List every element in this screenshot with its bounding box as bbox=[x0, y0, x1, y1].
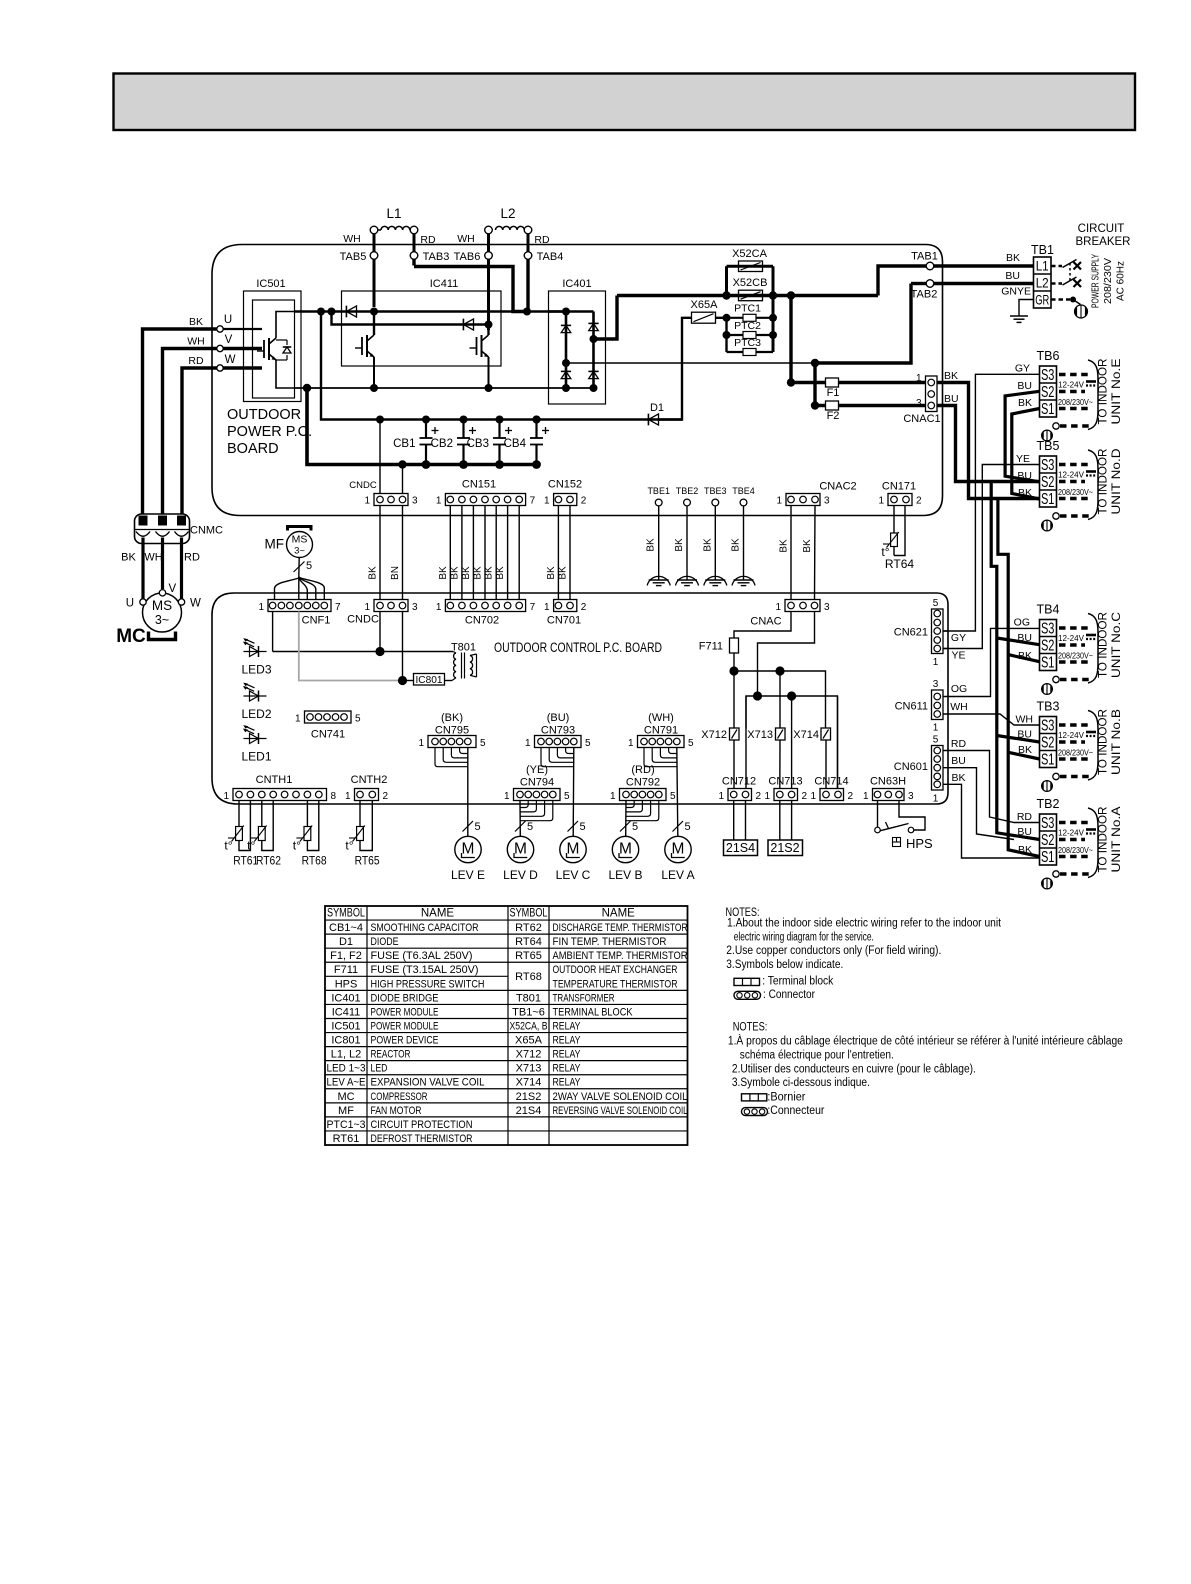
svg-text:BK: BK bbox=[473, 566, 484, 580]
svg-text:1: 1 bbox=[718, 791, 724, 802]
svg-text:BN: BN bbox=[390, 566, 401, 580]
svg-text:3~: 3~ bbox=[294, 546, 305, 557]
wire label GY (CN621) bbox=[951, 632, 966, 644]
svg-text:5: 5 bbox=[933, 735, 939, 746]
wire label BU (TB) bbox=[1017, 470, 1032, 482]
svg-text:BK: BK bbox=[702, 538, 713, 552]
wire label RD (L1) bbox=[420, 234, 436, 246]
wires CN792 bundle bbox=[626, 801, 659, 837]
wire TBE1 to ground bbox=[658, 506, 660, 580]
wire CN63H pin3 loop bbox=[899, 801, 925, 831]
terminal block TB2 bbox=[1037, 797, 1123, 889]
svg-text:CN621: CN621 bbox=[894, 627, 928, 639]
svg-text:NOTES:: NOTES: bbox=[733, 1022, 768, 1034]
svg-text:OUTDOOR: OUTDOOR bbox=[227, 407, 301, 423]
wire AC to TAB1 bbox=[878, 266, 927, 296]
capacitor CB4 bbox=[504, 416, 549, 469]
svg-text:PTC1~3: PTC1~3 bbox=[327, 1119, 366, 1131]
svg-text:WH: WH bbox=[1016, 714, 1034, 726]
svg-text:CIRCUIT: CIRCUIT bbox=[1078, 223, 1125, 235]
wire BU (TB2 S2) bbox=[943, 768, 1014, 840]
svg-text:BK: BK bbox=[449, 566, 460, 580]
svg-text:PTC2: PTC2 bbox=[734, 320, 761, 332]
wire CNDC pin3 riser bbox=[402, 465, 404, 494]
svg-text:5: 5 bbox=[933, 598, 939, 609]
svg-text:RT65: RT65 bbox=[355, 856, 380, 868]
svg-text:V: V bbox=[225, 334, 233, 346]
chassis ground TBE2 bbox=[676, 576, 699, 585]
svg-text:RELAY: RELAY bbox=[553, 1035, 582, 1047]
wire label BU (TB) bbox=[1017, 729, 1032, 741]
svg-text:t°: t° bbox=[293, 839, 301, 853]
svg-text:LEV E: LEV E bbox=[451, 868, 485, 882]
wire CN713 pin2 down bbox=[791, 801, 793, 841]
svg-text:BK: BK bbox=[802, 539, 813, 553]
svg-text:1: 1 bbox=[258, 602, 264, 613]
svg-text:X712: X712 bbox=[516, 1049, 542, 1061]
fan motor MF bbox=[265, 527, 313, 558]
svg-text:TAB4: TAB4 bbox=[537, 251, 564, 263]
svg-text:WH: WH bbox=[144, 552, 162, 564]
svg-text:5: 5 bbox=[474, 821, 480, 833]
svg-text:S2: S2 bbox=[1041, 474, 1055, 491]
svg-text:FIN TEMP. THERMISTOR: FIN TEMP. THERMISTOR bbox=[553, 936, 667, 948]
svg-text:LED 1~3: LED 1~3 bbox=[327, 1063, 366, 1075]
svg-text:L2: L2 bbox=[500, 206, 515, 221]
junction P2 TAB6 bbox=[485, 321, 493, 329]
svg-text:POWER MODULE: POWER MODULE bbox=[371, 1020, 439, 1032]
expansion valve motor LEV D bbox=[503, 836, 538, 882]
svg-text:2: 2 bbox=[756, 791, 762, 802]
junction net2 b bbox=[787, 691, 796, 700]
wire CNAC pin1-F711 bbox=[734, 612, 791, 639]
svg-text:TB1~6: TB1~6 bbox=[512, 1006, 545, 1018]
connector CN795 bbox=[418, 712, 486, 749]
wire label BK (CNAC1) bbox=[944, 370, 958, 382]
wire RD phase bbox=[182, 368, 217, 514]
svg-text:TEMPERATURE THERMISTOR: TEMPERATURE THERMISTOR bbox=[553, 978, 678, 990]
symbol table right column bbox=[510, 922, 688, 1117]
wire YE (TB5 S3) bbox=[943, 465, 1040, 649]
svg-text::Connecteur: :Connecteur bbox=[767, 1105, 824, 1117]
svg-text:IC401: IC401 bbox=[562, 278, 591, 290]
svg-text:12-24V: 12-24V bbox=[1058, 470, 1084, 480]
junction bridge BR bbox=[590, 384, 598, 392]
RT64 loop bbox=[894, 506, 905, 556]
IC411 IGBT right bbox=[470, 325, 490, 389]
svg-text:WH: WH bbox=[950, 701, 968, 713]
svg-text:AMBIENT TEMP. THERMISTOR: AMBIENT TEMP. THERMISTOR bbox=[553, 950, 688, 962]
svg-text:GY: GY bbox=[1015, 363, 1030, 375]
relay X52CB bbox=[733, 277, 768, 301]
wire CNF1 pin4 net (gray) bbox=[299, 612, 399, 681]
svg-text:2: 2 bbox=[916, 496, 922, 507]
slash 5 (LEV A) bbox=[673, 821, 691, 833]
svg-text:F2: F2 bbox=[827, 410, 840, 422]
expansion valve motor LEV B bbox=[608, 836, 642, 882]
IC401 diode LL bbox=[561, 371, 571, 378]
svg-text:TO INDOOR: TO INDOOR bbox=[1098, 612, 1110, 678]
svg-text:BK: BK bbox=[495, 566, 506, 580]
svg-text:RT64: RT64 bbox=[885, 557, 914, 571]
junction F1 node bbox=[787, 378, 795, 386]
slash 5 (MF) bbox=[294, 560, 313, 572]
svg-text:CNAC1: CNAC1 bbox=[903, 413, 940, 425]
svg-text:M: M bbox=[514, 841, 527, 858]
junction AC-F1 riser bbox=[787, 291, 795, 299]
wire label BK (TB1) bbox=[1006, 252, 1020, 264]
svg-text:CNAC2: CNAC2 bbox=[819, 481, 856, 493]
wire net2-CN712 bbox=[745, 696, 747, 789]
wire TAB3 to bridge rail bbox=[414, 267, 527, 312]
svg-text:X713: X713 bbox=[516, 1063, 542, 1075]
svg-text:S2: S2 bbox=[1041, 384, 1055, 401]
svg-text:OUTDOOR HEAT EXCHANGER: OUTDOOR HEAT EXCHANGER bbox=[553, 964, 678, 976]
ground (GR) bbox=[1010, 316, 1028, 322]
wire label BK (CN601) bbox=[951, 772, 965, 784]
svg-text:RELAY: RELAY bbox=[553, 1077, 582, 1089]
svg-text:TAB2: TAB2 bbox=[911, 289, 938, 301]
svg-text:V: V bbox=[169, 583, 177, 595]
svg-text:CNDC: CNDC bbox=[349, 480, 377, 491]
svg-text:FUSE (T6.3AL 250V): FUSE (T6.3AL 250V) bbox=[371, 950, 473, 962]
svg-text:TBE1: TBE1 bbox=[647, 486, 670, 496]
svg-text:S3: S3 bbox=[1041, 457, 1055, 474]
solenoid coil 21S2 bbox=[768, 840, 803, 856]
junction PTC1 left bbox=[723, 314, 731, 322]
svg-text:X52CA, B: X52CA, B bbox=[510, 1020, 548, 1032]
svg-text:LED2: LED2 bbox=[241, 707, 271, 721]
wires CN793 bundle bbox=[541, 748, 574, 837]
svg-text:BK: BK bbox=[944, 370, 958, 382]
wire TBE2 to ground bbox=[686, 506, 688, 580]
wire label YE (CN621) bbox=[951, 650, 965, 662]
svg-text:TBE3: TBE3 bbox=[704, 486, 727, 496]
IC411 boost diode 1 bbox=[346, 306, 356, 318]
earth (breaker) bbox=[1075, 305, 1088, 318]
circuit protection PTC1 bbox=[727, 303, 774, 322]
svg-text:1: 1 bbox=[775, 602, 781, 613]
wire X712-CN712 bbox=[733, 740, 735, 789]
svg-text:LEV C: LEV C bbox=[556, 868, 591, 882]
svg-text:TB5: TB5 bbox=[1037, 439, 1060, 453]
terminal TAB6 bbox=[454, 251, 493, 263]
svg-text:S2: S2 bbox=[1041, 832, 1055, 849]
connector CN791 bbox=[628, 712, 694, 749]
svg-text:1: 1 bbox=[863, 791, 869, 802]
wire TAB2 stub bbox=[911, 282, 927, 285]
svg-text:WH: WH bbox=[343, 233, 361, 245]
connector CN794 bbox=[504, 764, 570, 802]
svg-text:TO INDOOR: TO INDOOR bbox=[1098, 807, 1110, 873]
svg-text:RT62: RT62 bbox=[256, 856, 281, 868]
power supply label bbox=[1090, 254, 1127, 308]
svg-text:CN171: CN171 bbox=[882, 481, 916, 493]
X52CA row bbox=[727, 265, 774, 268]
compressor motor MC bbox=[126, 583, 201, 632]
CB bottom bus bbox=[307, 388, 537, 465]
svg-text:LEV B: LEV B bbox=[608, 868, 642, 882]
N rail bbox=[295, 387, 594, 389]
notes (english) bbox=[726, 907, 1002, 971]
terminal TBE3 bbox=[704, 486, 727, 506]
svg-text:RELAY: RELAY bbox=[553, 1049, 582, 1061]
svg-text:1: 1 bbox=[418, 738, 424, 749]
title header bar bbox=[114, 74, 1136, 131]
svg-text:U: U bbox=[224, 314, 232, 326]
wire CNF1 pin1 net bbox=[273, 612, 453, 652]
terminal TAB5 bbox=[340, 251, 378, 263]
svg-text:S3: S3 bbox=[1041, 815, 1055, 832]
wire label WH (L2) bbox=[457, 233, 475, 245]
wire riser to F1 bbox=[789, 296, 792, 383]
svg-text:7: 7 bbox=[335, 602, 341, 613]
svg-text:S1: S1 bbox=[1041, 752, 1055, 769]
junction P1 a bbox=[317, 308, 325, 316]
wire bridge out to X52 line bbox=[594, 296, 618, 340]
svg-text:IC411: IC411 bbox=[430, 278, 459, 290]
wire BK (TB2 S1) bbox=[943, 784, 1040, 858]
svg-text:3: 3 bbox=[824, 602, 830, 613]
svg-text:8: 8 bbox=[331, 791, 337, 802]
svg-text:RD: RD bbox=[951, 738, 967, 750]
svg-text:BU: BU bbox=[944, 393, 959, 405]
wire CN712 pin1 down bbox=[733, 801, 735, 841]
svg-text:NAME: NAME bbox=[602, 908, 636, 920]
svg-text:1: 1 bbox=[295, 714, 301, 725]
net2 line bbox=[746, 696, 838, 789]
chassis ground TBE4 bbox=[732, 576, 755, 585]
relay X52CA bbox=[732, 248, 768, 272]
chassis ground TBE3 bbox=[704, 576, 727, 585]
IC411 rail P2 bbox=[332, 312, 489, 325]
breaker pole L1 bbox=[1051, 260, 1081, 270]
svg-text:RD: RD bbox=[184, 552, 200, 564]
junction bridge ML bbox=[562, 359, 570, 367]
svg-text:SMOOTHING CAPACITOR: SMOOTHING CAPACITOR bbox=[371, 922, 479, 934]
wire label BU (TB) bbox=[1017, 632, 1032, 644]
connector CN792 bbox=[610, 764, 676, 802]
svg-text:TBE2: TBE2 bbox=[676, 486, 699, 496]
svg-text:M: M bbox=[462, 841, 475, 858]
svg-text:(BU): (BU) bbox=[547, 712, 570, 724]
junction TAB4-rail bbox=[523, 308, 531, 316]
svg-text:1: 1 bbox=[504, 791, 510, 802]
svg-text:1: 1 bbox=[776, 496, 782, 507]
connector CN151 bbox=[436, 479, 536, 507]
svg-text:CNAC: CNAC bbox=[750, 616, 781, 628]
svg-text:DIODE: DIODE bbox=[371, 936, 399, 948]
svg-text:S3: S3 bbox=[1041, 718, 1055, 735]
wire WH (TB3 S3) bbox=[943, 714, 1040, 725]
connector CNAC bbox=[750, 600, 830, 628]
wire L2 left leg (TAB6 down) bbox=[487, 234, 490, 330]
svg-text:UNIT No.B: UNIT No.B bbox=[1111, 709, 1123, 775]
symbol table header bbox=[327, 908, 635, 920]
svg-text:WH: WH bbox=[187, 336, 205, 348]
svg-text:OG: OG bbox=[1014, 617, 1030, 629]
svg-text:1.About the indoor side electr: 1.About the indoor side electric wiring … bbox=[727, 918, 1002, 930]
wire IC801-T801 bbox=[445, 680, 453, 682]
connector CN712 bbox=[718, 776, 761, 803]
svg-text:TERMINAL BLOCK: TERMINAL BLOCK bbox=[553, 1006, 634, 1018]
wire label YE (TB) bbox=[1016, 453, 1030, 465]
svg-text:REVERSING VALVE SOLENOID COIL: REVERSING VALVE SOLENOID COIL bbox=[553, 1105, 688, 1117]
wire label BU (TB1) bbox=[1005, 270, 1020, 282]
junction IC801 node bbox=[398, 676, 407, 685]
svg-text:RT64: RT64 bbox=[515, 936, 542, 948]
junction X52 right bbox=[769, 291, 777, 299]
wire label WH (CN611) bbox=[950, 701, 968, 713]
wire label BK (CNMC) bbox=[121, 552, 136, 564]
thermistor RT65 bbox=[345, 801, 379, 868]
wire TAB1 to TB1 bbox=[934, 264, 1034, 267]
slash 5 (LEV B) bbox=[620, 821, 638, 833]
svg-text:TB2: TB2 bbox=[1037, 797, 1060, 811]
outdoor control p.c. board label bbox=[494, 640, 662, 655]
svg-text:RD: RD bbox=[534, 234, 550, 246]
terminal block TB1 bbox=[1031, 243, 1054, 308]
wire label WH (L1) bbox=[343, 233, 361, 245]
wires CN794 bundle bbox=[520, 801, 553, 837]
svg-text:CB2: CB2 bbox=[431, 438, 453, 450]
svg-text:T801: T801 bbox=[516, 992, 541, 1004]
connector CNDC (control) bbox=[347, 600, 418, 626]
wire L1 right leg (TAB3 down) bbox=[413, 234, 416, 266]
svg-text:RT65: RT65 bbox=[515, 950, 542, 962]
svg-text:IC401: IC401 bbox=[331, 992, 360, 1004]
svg-text:2: 2 bbox=[581, 496, 587, 507]
IC411 outline bbox=[342, 278, 502, 366]
svg-text:(BK): (BK) bbox=[441, 712, 463, 724]
junction net2 a bbox=[753, 691, 762, 700]
svg-text:M: M bbox=[567, 841, 580, 858]
wire label BK (TB) bbox=[1018, 487, 1032, 499]
led LED2 bbox=[241, 683, 271, 721]
svg-text:12-24V: 12-24V bbox=[1058, 380, 1084, 390]
connector CNMC bbox=[135, 514, 224, 544]
wire CN171 pin1 down bbox=[893, 506, 895, 534]
svg-text:YE: YE bbox=[1016, 453, 1030, 465]
capacitor CB1 bbox=[393, 416, 438, 469]
svg-text:RT62: RT62 bbox=[515, 922, 542, 934]
svg-text:1: 1 bbox=[933, 723, 939, 734]
svg-text:BK: BK bbox=[951, 772, 965, 784]
svg-text:1: 1 bbox=[933, 794, 939, 805]
relay X65A bbox=[691, 299, 719, 323]
wire V to IC501 bbox=[223, 347, 262, 350]
IC411 boost diode 2 bbox=[463, 319, 473, 331]
outdoor power p.c. board label bbox=[227, 407, 312, 457]
connector CN793 bbox=[525, 712, 591, 749]
svg-text:S3: S3 bbox=[1041, 621, 1055, 638]
svg-text:S3: S3 bbox=[1041, 367, 1055, 384]
svg-text:CNTH1: CNTH1 bbox=[256, 774, 293, 786]
wires CN151-CN702 bbox=[438, 506, 519, 600]
symbol table left column bbox=[327, 922, 485, 1145]
terminal TBE4 bbox=[732, 486, 755, 506]
svg-text:12-24V: 12-24V bbox=[1058, 828, 1084, 838]
wire OG (TB4 S3) bbox=[943, 628, 1040, 696]
terminal TAB3 bbox=[410, 251, 449, 263]
svg-text:RD: RD bbox=[1017, 811, 1033, 823]
breaker pole L2 bbox=[1051, 277, 1081, 287]
svg-text:S1: S1 bbox=[1041, 655, 1055, 672]
svg-text:COMPRESSOR: COMPRESSOR bbox=[371, 1091, 428, 1103]
svg-text:BK: BK bbox=[674, 538, 685, 552]
wire net2-CN713 bbox=[791, 696, 793, 789]
svg-text:t°: t° bbox=[224, 839, 232, 853]
svg-text:21S2: 21S2 bbox=[770, 841, 799, 855]
svg-text:S1: S1 bbox=[1041, 849, 1055, 866]
svg-text:CNF1: CNF1 bbox=[302, 615, 331, 627]
circuit protection PTC2 bbox=[727, 320, 774, 339]
connector CN611 bbox=[895, 679, 943, 734]
svg-text:TBE4: TBE4 bbox=[732, 486, 755, 496]
svg-text:1: 1 bbox=[544, 496, 550, 507]
svg-text:2: 2 bbox=[848, 791, 854, 802]
svg-text:1: 1 bbox=[610, 791, 616, 802]
wire label OG (TB) bbox=[1014, 617, 1030, 629]
wire label RD (CNMC) bbox=[184, 552, 200, 564]
svg-text:CN151: CN151 bbox=[462, 479, 496, 491]
connector CN701 bbox=[544, 600, 587, 627]
svg-text:2.Utiliser des conducteurs en: 2.Utiliser des conducteurs en cuivre (po… bbox=[732, 1063, 976, 1075]
wire S1 chain bbox=[998, 409, 1040, 857]
connector CNDC (power) bbox=[349, 480, 418, 507]
wire label RD (TB) bbox=[1017, 811, 1033, 823]
svg-text:IC501: IC501 bbox=[331, 1020, 360, 1032]
junction net1 b bbox=[775, 666, 784, 675]
svg-text:BU: BU bbox=[951, 755, 966, 767]
svg-text:W: W bbox=[225, 354, 236, 366]
wire GR to ground bbox=[1019, 300, 1034, 317]
svg-text:7: 7 bbox=[530, 602, 536, 613]
svg-text:2: 2 bbox=[581, 602, 587, 613]
wire label BK (TBE3) bbox=[702, 538, 713, 552]
svg-text:1: 1 bbox=[628, 738, 634, 749]
solenoid coil 21S4 bbox=[724, 840, 758, 856]
capacitor CB2 bbox=[431, 416, 476, 469]
svg-text:BREAKER: BREAKER bbox=[1076, 236, 1131, 248]
terminal block legend symbol bbox=[734, 976, 834, 988]
fuse F711 bbox=[699, 638, 739, 653]
svg-text:BK: BK bbox=[121, 552, 136, 564]
connector CNAC2 bbox=[776, 481, 856, 507]
connector CN171 bbox=[878, 481, 922, 507]
svg-text:208/230V~: 208/230V~ bbox=[1058, 748, 1093, 758]
wire CNDC pin1 down bbox=[379, 612, 381, 652]
svg-text:X714: X714 bbox=[793, 729, 819, 741]
circuit protection PTC3 bbox=[727, 337, 774, 356]
svg-text:208/230V~: 208/230V~ bbox=[1058, 397, 1093, 407]
svg-text:BU: BU bbox=[1005, 270, 1020, 282]
svg-text:LEV A~E: LEV A~E bbox=[327, 1077, 366, 1089]
wire GY (TB6 S3) bbox=[943, 374, 1040, 631]
wire WH phase bbox=[163, 349, 217, 515]
svg-text:21S4: 21S4 bbox=[726, 841, 755, 855]
connector CN702 bbox=[436, 600, 536, 627]
wire label BU (CN601) bbox=[951, 755, 966, 767]
wire CN63H pin1 down bbox=[877, 801, 879, 828]
connector CN741 bbox=[295, 711, 361, 741]
svg-text:1: 1 bbox=[436, 496, 442, 507]
fuse F2 bbox=[815, 401, 926, 422]
wire label BK (TBE4) bbox=[731, 538, 742, 552]
svg-text:SYMBOL: SYMBOL bbox=[327, 908, 365, 920]
svg-text:RD: RD bbox=[420, 234, 436, 246]
svg-text:CN714: CN714 bbox=[814, 776, 848, 788]
